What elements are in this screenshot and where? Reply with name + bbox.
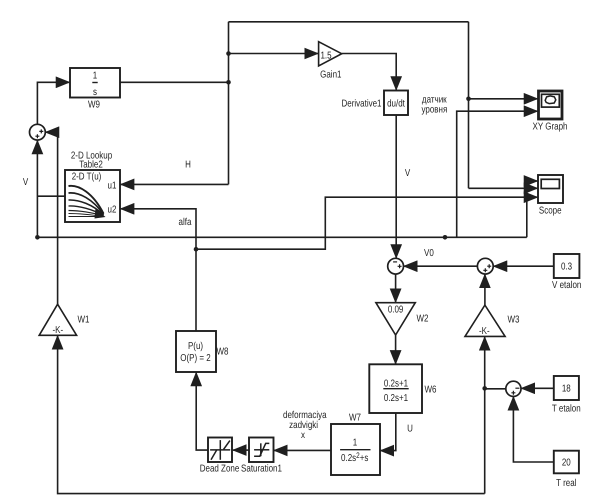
wire V branch to XY Graph input 2 [457, 111, 538, 237]
junction node V right [443, 235, 448, 240]
junction node H at Gain1 branch [226, 51, 231, 56]
svg-text:0.2s+1: 0.2s+1 [384, 393, 409, 404]
wire H to u1 input [121, 183, 229, 185]
svg-text:-K-: -K- [479, 326, 490, 337]
derivative block Derivative1 [341, 91, 408, 116]
wire H bus vertical [228, 22, 230, 185]
svg-text:V: V [23, 177, 29, 188]
constant 20 T real [554, 451, 579, 489]
junction node H right [466, 97, 471, 102]
svg-text:2-D T(u): 2-D T(u) [72, 172, 102, 183]
gain Gain1 [319, 42, 342, 81]
sum block sum1 V0 [388, 258, 404, 274]
svg-text:18: 18 [562, 384, 571, 395]
wire W3 output to sum2 [484, 275, 486, 306]
wire V long horizontal [37, 236, 526, 238]
wire V branch to Scope input 1 [527, 181, 538, 237]
svg-text:Derivative1: Derivative1 [341, 99, 381, 110]
wire Saturation1 output to Dead Zone [233, 449, 249, 451]
svg-text:1: 1 [93, 70, 98, 81]
transfer function W6 [369, 364, 437, 413]
wire H branch to Gain1 [229, 53, 319, 55]
svg-text:Table2: Table2 [79, 159, 103, 170]
scope block Scope [538, 175, 563, 217]
svg-text:W8: W8 [217, 347, 229, 358]
wire lookup output V to junction [37, 195, 65, 197]
gain W3 [465, 305, 520, 337]
2-D lookup table block [65, 150, 120, 222]
wire sum3 output to junction [485, 388, 506, 390]
svg-text:T real: T real [556, 478, 576, 489]
wire H to XY Graph input 1 [469, 98, 538, 100]
sum block sum3 [506, 381, 521, 396]
wire W8 output up to node alfa [195, 249, 197, 331]
svg-text:1: 1 [353, 438, 358, 449]
wire W2 output to W6 [395, 335, 397, 364]
junction node alfa [194, 247, 199, 252]
svg-text:s: s [93, 87, 97, 98]
svg-text:T etalon: T etalon [552, 404, 581, 415]
wire bottom feedback to W1 [58, 336, 485, 494]
svg-text:0.2s2+s: 0.2s2+s [341, 451, 368, 464]
label датчик уровня [421, 95, 447, 116]
junction node H at W9 output [226, 80, 231, 85]
wire T real 20 to sum3 [513, 397, 553, 462]
wire Dead Zone output to W8 [196, 373, 208, 451]
svg-text:W3: W3 [508, 315, 520, 326]
wire W9 output to node H [120, 81, 229, 83]
svg-text:V etalon: V etalon [552, 280, 581, 291]
svg-text:P(u): P(u) [188, 341, 203, 352]
wire top horizontal H line [229, 21, 469, 23]
svg-text:W1: W1 [78, 315, 90, 326]
gain W1 [39, 304, 90, 336]
svg-text:u1: u1 [108, 181, 117, 192]
wire Derivative1 output V to sum1 [395, 115, 397, 258]
svg-text:0.2s+1: 0.2s+1 [384, 379, 409, 390]
svg-text:1.5: 1.5 [320, 51, 331, 62]
wire W1 output to sum0 [46, 132, 58, 304]
svg-text:-K-: -K- [52, 325, 63, 336]
svg-text:H: H [185, 160, 191, 171]
svg-text:Saturation1: Saturation1 [241, 464, 282, 475]
transfer function W7 [331, 413, 380, 476]
svg-text:V: V [405, 168, 411, 179]
polynomial block W8 [176, 331, 229, 372]
svg-text:W7: W7 [349, 413, 361, 424]
wire V etalon 0.3 to sum2 [494, 265, 554, 267]
wire sum2 output to sum1 [404, 265, 478, 267]
svg-text:x: x [301, 430, 305, 441]
wire T etalon 18 to sum3 [521, 387, 553, 389]
svg-text:O(P) = 2: O(P) = 2 [180, 353, 211, 364]
saturation block Saturation1 [241, 438, 282, 475]
svg-text:alfa: alfa [179, 217, 192, 228]
wire W7 output to Saturation1 [274, 449, 331, 451]
sum block sum0 [30, 124, 46, 140]
svg-text:W9: W9 [88, 100, 100, 111]
wire H to Scope input 2 [469, 187, 538, 189]
svg-text:20: 20 [562, 458, 571, 469]
svg-text:Gain1: Gain1 [320, 70, 342, 81]
svg-text:W2: W2 [417, 314, 429, 325]
svg-text:0.3: 0.3 [561, 262, 572, 273]
wire temperature error vertical [484, 337, 486, 494]
wire W6 output U to W7 [380, 413, 395, 451]
constant 0.3 V etalon [552, 254, 581, 291]
junction node T error [482, 386, 487, 391]
XY Graph scope block [533, 91, 568, 133]
node label deformaciya zadvigki x [283, 410, 327, 441]
svg-text:W6: W6 [425, 385, 437, 396]
svg-text:u2: u2 [108, 205, 117, 216]
svg-text:Dead Zone: Dead Zone [200, 464, 240, 475]
integrator W9 [70, 68, 120, 111]
svg-text:Scope: Scope [539, 206, 562, 217]
sum block sum2 [477, 258, 493, 274]
wire V up into sum0 [36, 141, 38, 238]
wire sum1 output to W2 [395, 274, 397, 302]
wire alfa branch to Scope input 3 [196, 197, 537, 249]
wire sum0 output to W9 input [37, 82, 69, 125]
wire Gain1 output to Derivative1 [342, 54, 397, 90]
constant 18 T etalon [552, 376, 581, 415]
wire H right vertical [468, 22, 470, 189]
junction node V left [35, 235, 40, 240]
svg-text:U: U [407, 424, 413, 435]
gain W2 [376, 303, 429, 335]
svg-text:XY Graph: XY Graph [533, 122, 568, 133]
svg-text:V0: V0 [424, 248, 434, 259]
svg-text:0.09: 0.09 [388, 305, 404, 316]
wire alfa to u2 input [121, 209, 196, 249]
svg-text:уровня: уровня [421, 105, 447, 116]
svg-text:du/dt: du/dt [387, 99, 405, 110]
dead zone block [200, 438, 240, 475]
